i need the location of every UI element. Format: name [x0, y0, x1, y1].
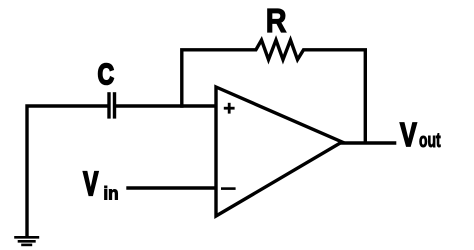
svg-text:in: in	[103, 183, 118, 204]
svg-text:R: R	[266, 2, 287, 40]
svg-text:V: V	[83, 165, 98, 202]
svg-text:C: C	[98, 57, 115, 90]
svg-text:out: out	[419, 128, 441, 151]
svg-text:V: V	[400, 117, 417, 154]
